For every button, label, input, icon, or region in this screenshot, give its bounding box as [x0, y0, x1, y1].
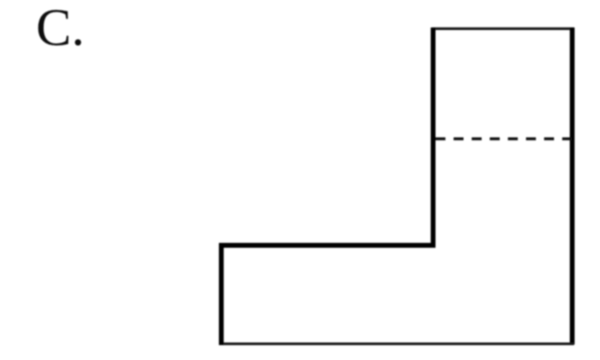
wire bottom edge: [219, 342, 574, 345]
wire left edge of tall rectangle: [431, 28, 436, 248]
wire left edge of bottom rectangle: [219, 243, 224, 345]
wire top edge of tall rectangle: [432, 27, 574, 30]
wire right edge: [570, 28, 575, 345]
svg-text:C.: C.: [36, 0, 85, 57]
wire dashed fold line: [436, 137, 573, 140]
wire step horizontal top of bottom rectangle: [219, 243, 436, 248]
